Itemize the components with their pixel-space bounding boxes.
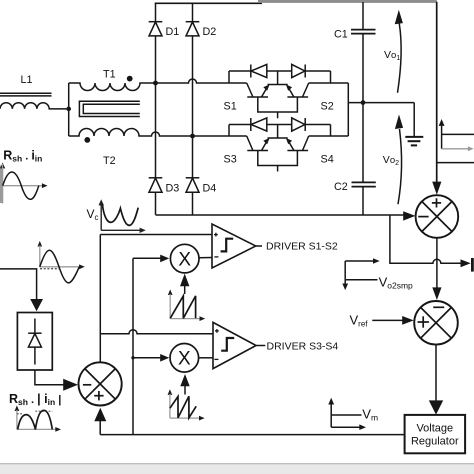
svg-text:T2: T2 [103, 155, 116, 167]
svg-text:DRIVER S3-S4: DRIVER S3-S4 [267, 341, 339, 353]
svg-text:S2: S2 [321, 101, 334, 113]
svg-text:D2: D2 [203, 26, 217, 38]
svg-text:D4: D4 [203, 183, 217, 195]
svg-text:D3: D3 [166, 183, 180, 195]
svg-text:X: X [178, 249, 191, 270]
svg-text:Regulator: Regulator [411, 436, 459, 448]
svg-text:T1: T1 [103, 69, 116, 81]
svg-text:D1: D1 [166, 26, 180, 38]
svg-text:Voltage: Voltage [416, 423, 453, 435]
svg-text:S4: S4 [321, 154, 334, 166]
svg-text:L1: L1 [21, 74, 33, 86]
svg-text:C1: C1 [334, 29, 348, 41]
svg-text:DRIVER S1-S2: DRIVER S1-S2 [266, 241, 338, 253]
svg-text:X: X [178, 349, 191, 370]
svg-text:C2: C2 [334, 181, 348, 193]
svg-text:S3: S3 [224, 154, 237, 166]
svg-text:S1: S1 [224, 101, 237, 113]
